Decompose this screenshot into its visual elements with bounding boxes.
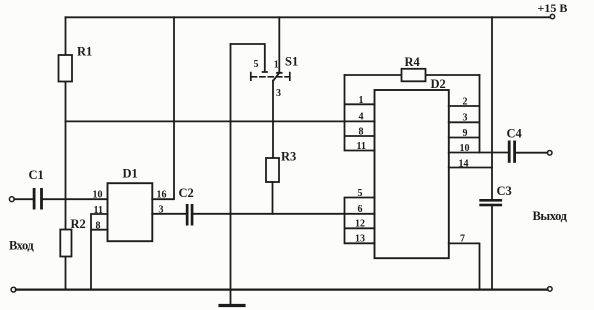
wire D1 pin 16 to +15V rail (152, 17, 174, 199)
svg-text:Вход: Вход (9, 239, 34, 253)
svg-text:11: 11 (357, 141, 366, 152)
switch S1 moving contact (273, 73, 279, 81)
svg-text:4: 4 (359, 112, 364, 123)
wire S1 pin 3 to R3 (272, 81, 274, 159)
wire middle rail to pin 4 of D2 (66, 120, 375, 122)
wire D2 lower-left bus pins 5,6,12,13 (345, 198, 375, 244)
svg-text:R1: R1 (77, 45, 92, 59)
svg-text:+15 В: +15 В (538, 1, 568, 15)
node bottom-right terminal (548, 287, 553, 292)
svg-text:12: 12 (355, 219, 365, 230)
wire C1 to D1 pin 10 (43, 198, 108, 200)
resistor R2 (60, 230, 71, 257)
svg-text:5: 5 (358, 188, 363, 199)
svg-text:10: 10 (93, 190, 103, 201)
svg-text:C2: C2 (179, 186, 194, 200)
svg-text:R3: R3 (281, 150, 296, 164)
wire input to C1 (14, 198, 32, 200)
capacitor C1 (33, 188, 43, 210)
svg-text:Выход: Выход (533, 209, 568, 223)
svg-text:C1: C1 (29, 168, 44, 182)
wire D2 pin 10 to C4 (449, 152, 508, 154)
capacitor C3 (479, 199, 502, 206)
resistor R1 (59, 55, 73, 82)
svg-text:1: 1 (359, 95, 364, 106)
svg-text:9: 9 (463, 128, 468, 139)
svg-text:5: 5 (254, 59, 259, 70)
svg-text:R4: R4 (405, 55, 421, 69)
svg-text:C3: C3 (497, 184, 512, 198)
svg-text:C4: C4 (507, 127, 523, 141)
wire D2 pin 14 to +15V branch (449, 167, 492, 169)
wire R3 to C2 net (272, 182, 274, 214)
svg-text:6: 6 (358, 204, 363, 215)
svg-text:8: 8 (359, 127, 364, 138)
svg-text:13: 13 (355, 234, 365, 245)
wire S1 contact 1 from +15V rail (277, 17, 282, 73)
wire bottom ground rail (16, 289, 548, 291)
IC D2 body (375, 90, 449, 258)
wire S1 contact 5 hook (231, 44, 268, 72)
svg-text:D2: D2 (431, 77, 446, 91)
wire D1 pins 11,8 to ground rail (91, 214, 108, 290)
svg-text:1: 1 (274, 60, 279, 71)
svg-text:3: 3 (463, 113, 468, 124)
switch S1 actuator dashed link (251, 73, 290, 81)
wire R4 net (345, 74, 480, 76)
wire D2 left bus pins 1,4,8,11 (345, 75, 375, 151)
op-amp U1 / IC D1 body (108, 183, 153, 241)
wire +15V branch to C3 (491, 17, 493, 199)
node output terminal (547, 151, 552, 156)
wire S1 common to ground symbol (230, 44, 232, 305)
wire D2 pin 7 to ground rail (449, 243, 480, 289)
svg-text:3: 3 (276, 88, 281, 99)
svg-text:2: 2 (463, 97, 468, 108)
resistor R4 (402, 69, 426, 82)
wire D2 right bus pins 2,3,9 (449, 75, 480, 153)
node +15V terminal (550, 14, 554, 18)
svg-text:D1: D1 (123, 167, 138, 181)
capacitor C4 (508, 141, 516, 163)
wire C4 to output terminal (516, 152, 547, 154)
wire C3 to ground rail (491, 206, 493, 289)
wire D1 pin 3 to C2 (152, 213, 186, 215)
wire R1-R2 vertical branch (65, 17, 67, 289)
resistor R3 (266, 158, 279, 182)
wire top +15V rail (66, 16, 551, 18)
ground (220, 304, 244, 307)
node bottom-left terminal (11, 287, 16, 292)
svg-text:S1: S1 (285, 55, 298, 69)
svg-text:R2: R2 (71, 217, 86, 231)
node input terminal (9, 197, 14, 202)
capacitor C2 (186, 204, 194, 226)
wire C2 to D2 pin 6 (193, 213, 374, 215)
